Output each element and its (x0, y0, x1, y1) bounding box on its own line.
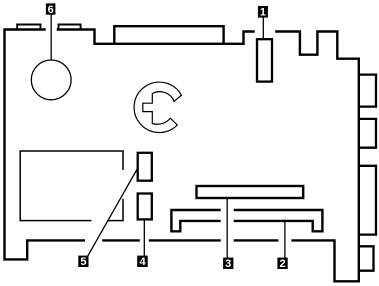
svg-text:3: 3 (225, 258, 231, 270)
svg-text:4: 4 (139, 256, 146, 268)
svg-text:6: 6 (48, 4, 54, 16)
svg-text:5: 5 (80, 256, 86, 268)
svg-text:1: 1 (260, 7, 266, 19)
svg-text:2: 2 (279, 258, 285, 270)
